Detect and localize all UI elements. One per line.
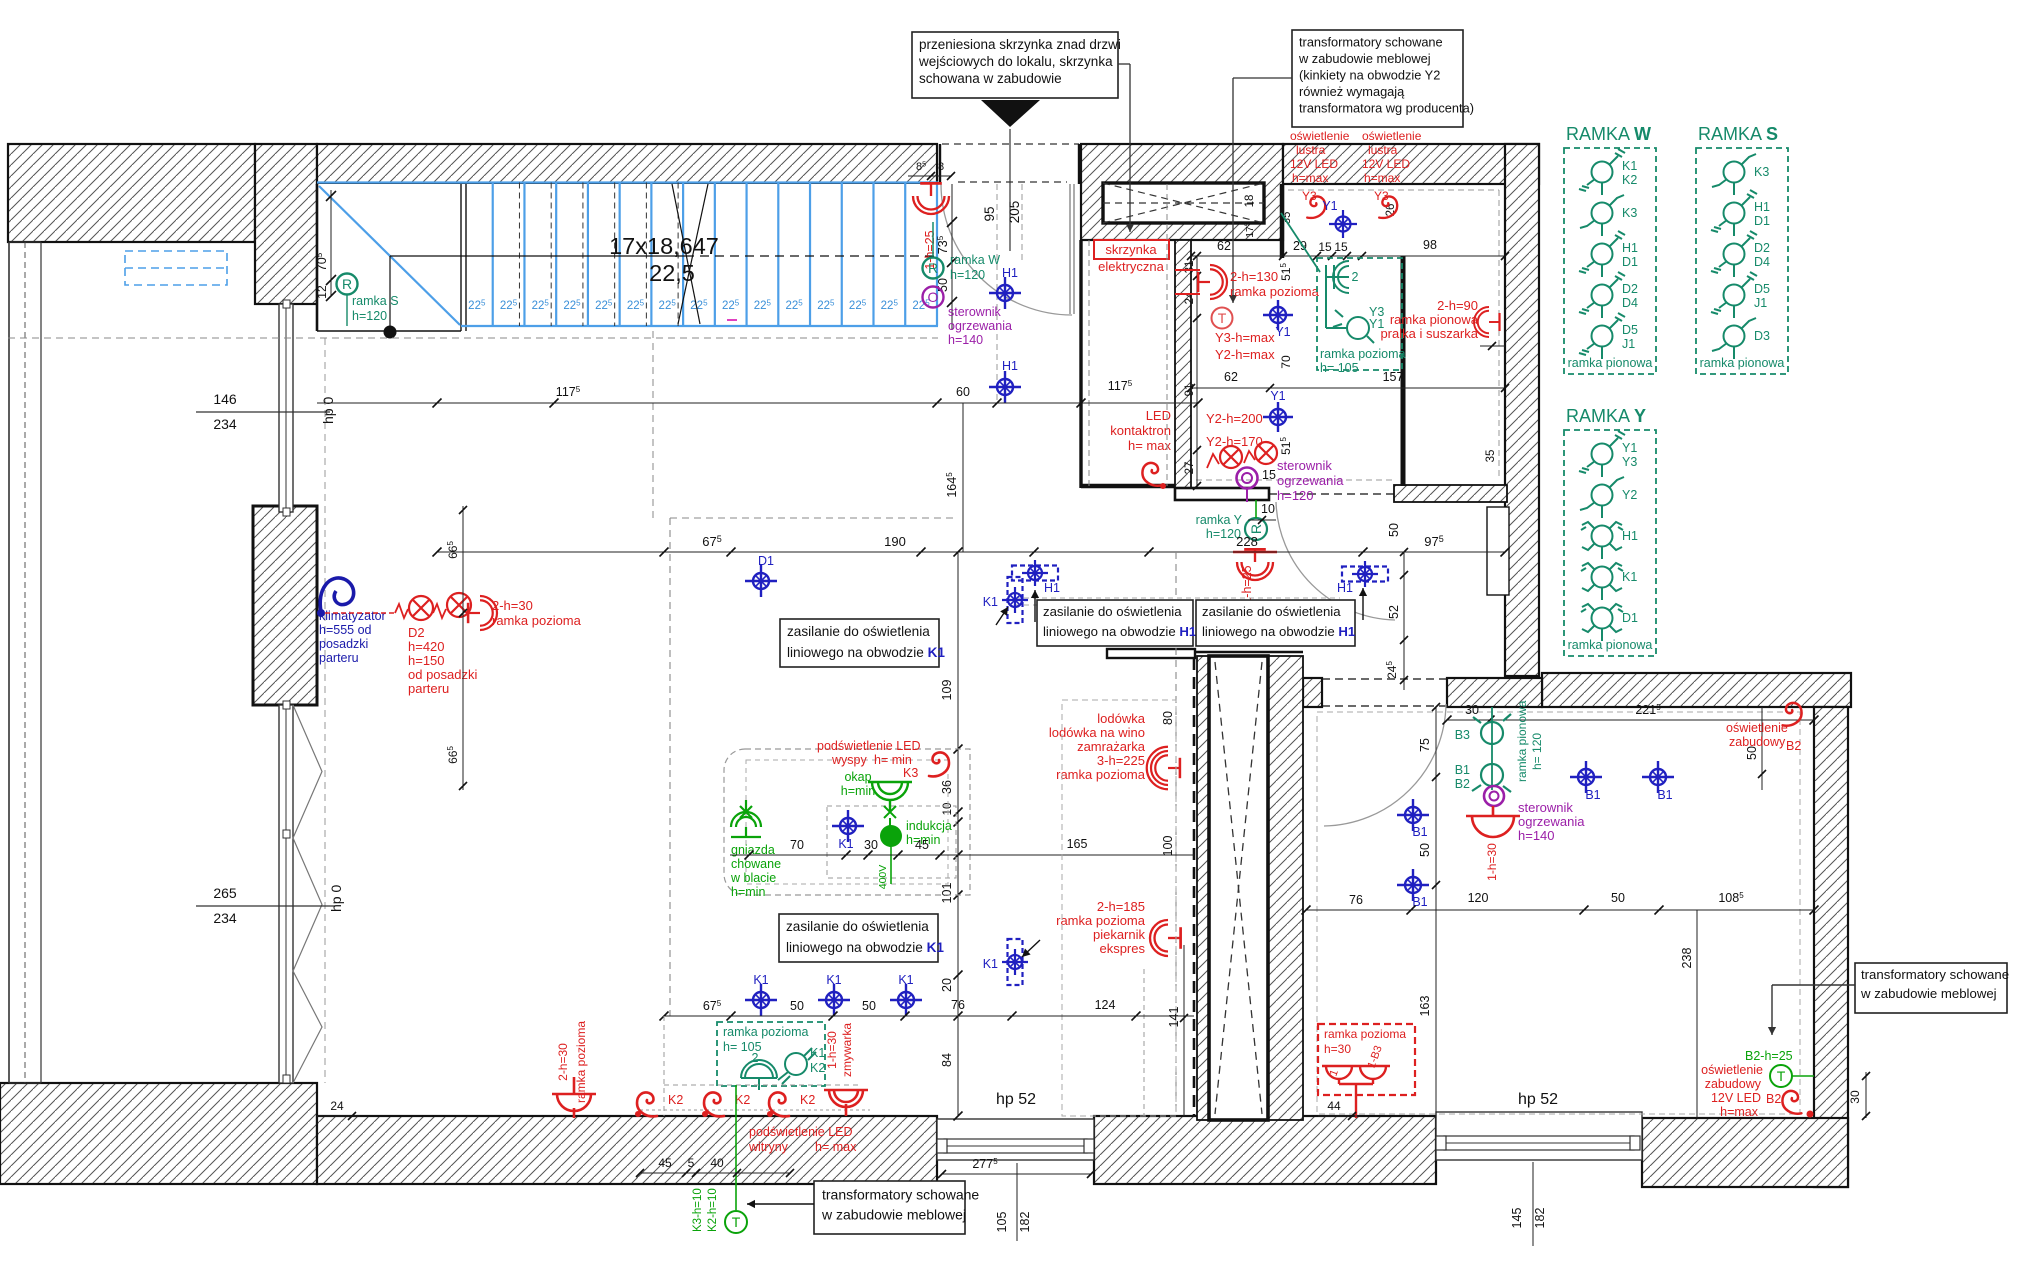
svg-text:70: 70 [1279,355,1293,369]
dashed line under stairs [8,337,938,339]
svg-text:182: 182 [1533,1208,1547,1229]
svg-text:K3: K3 [1622,206,1637,220]
svg-text:ekspres: ekspres [1099,941,1145,956]
svg-text:Y2-h=200: Y2-h=200 [1206,411,1263,426]
svg-text:sterownik: sterownik [1277,458,1332,473]
left facade thin lines [8,242,10,1083]
svg-text:ramka S: ramka S [352,294,399,308]
stairs: blue outline [317,181,938,183]
svg-text:chowane: chowane [731,857,781,871]
gniazda chowane [731,800,761,837]
bathroom dims row y=388 [1191,387,1505,389]
blue dashed box top-left [125,251,227,285]
corridor walls [1079,240,1082,488]
svg-text:h=max: h=max [1292,171,1328,185]
svg-text:D4: D4 [1754,255,1770,269]
wall: right room right wall [1814,707,1848,1187]
svg-text:wejściowych do lokalu, skrzynk: wejściowych do lokalu, skrzynka [918,54,1113,69]
svg-text:B1: B1 [1412,825,1427,839]
svg-text:84: 84 [940,1053,954,1067]
svg-text:hp 0: hp 0 [328,885,344,912]
svg-text:h=max: h=max [1364,171,1400,185]
svg-text:15: 15 [1334,240,1348,254]
svg-text:2-h=130: 2-h=130 [1230,269,1278,284]
stairs body [317,184,938,328]
svg-text:2-h=90: 2-h=90 [1437,298,1478,313]
right room inset dashed [1317,712,1800,1114]
B1 ceiling lights [1397,799,1429,831]
svg-text:146: 146 [213,391,237,407]
svg-text:Y3-h=max: Y3-h=max [1215,330,1275,345]
zasilanie K1 box (bottom) [779,914,938,962]
svg-text:h=120: h=120 [352,309,387,323]
stairs: walk line [390,255,685,257]
island dashed outline [724,749,970,895]
entrance arrow triangle [981,100,1040,127]
svg-text:101: 101 [940,883,954,904]
svg-text:h=min: h=min [841,784,875,798]
svg-text:(kinkiety na obwodzie Y2: (kinkiety na obwodzie Y2 [1299,68,1440,83]
svg-text:B1: B1 [1455,763,1470,777]
wall: bathroom top band with niche [1081,144,1283,240]
zasilanie K1 box (top) [780,619,939,667]
svg-text:ramka pozioma: ramka pozioma [1324,1027,1406,1041]
stairs: landing diagonal [319,186,460,325]
svg-text:70: 70 [790,838,804,852]
svg-text:podświetlenie LED: podświetlenie LED [749,1125,853,1139]
svg-text:44: 44 [1327,1099,1341,1113]
svg-text:ramka pozioma: ramka pozioma [1230,284,1320,299]
svg-text:2: 2 [752,1051,759,1065]
svg-text:Y2-h=max: Y2-h=max [1215,347,1275,362]
svg-text:R: R [342,276,352,292]
vertical dim x=958 main chain [957,552,959,1116]
K1 island [832,810,864,842]
svg-text:zamrażarka: zamrażarka [1077,739,1146,754]
svg-text:posadzki: posadzki [319,637,368,651]
svg-text:Y1: Y1 [1322,199,1337,213]
svg-text:zmywarka: zmywarka [840,1023,854,1077]
svg-text:K3: K3 [903,766,918,780]
kitchen dim row y=855 [730,854,1194,856]
svg-text:transformatory schowane: transformatory schowane [822,1187,979,1203]
heating controller purple [1237,468,1258,489]
H1 linear hall [1342,567,1388,582]
svg-text:K2: K2 [668,1093,683,1107]
T thermostat [1212,308,1233,329]
svg-text:100: 100 [1161,836,1175,857]
svg-text:h= 105: h= 105 [1320,361,1359,375]
svg-text:D5: D5 [1754,282,1770,296]
svg-text:50: 50 [1387,523,1401,537]
niche in right wall [1487,507,1509,595]
svg-text:D3: D3 [1754,329,1770,343]
svg-text:T: T [732,1214,741,1230]
svg-text:w blacie: w blacie [730,871,776,885]
green dashed box ramka pozioma h=105 kitchen [717,1022,825,1086]
svg-text:sterownik: sterownik [1518,800,1573,815]
svg-text:B3: B3 [1455,728,1470,742]
svg-text:w zabudowie meblowej: w zabudowie meblowej [821,1207,966,1223]
svg-text:234: 234 [213,416,237,432]
svg-text:ogrzewania: ogrzewania [1518,814,1585,829]
svg-text:31: 31 [1184,261,1196,274]
window 1 (146/234) [279,304,293,512]
stairs: break lines [672,184,700,324]
svg-text:2-h=30: 2-h=30 [556,1043,570,1081]
svg-text:75: 75 [1418,738,1432,752]
svg-text:transformatora wg producenta): transformatora wg producenta) [1299,101,1474,116]
socket 2-h=130 [1198,265,1227,299]
svg-text:ramka pionowa: ramka pionowa [1390,312,1479,327]
svg-text:pralka i suszarka: pralka i suszarka [1380,326,1478,341]
svg-text:ramka pionowa: ramka pionowa [1700,356,1785,370]
svg-text:B2: B2 [1786,739,1801,753]
D2 chain red [325,612,395,614]
svg-text:oświetlenie: oświetlenie [1726,721,1788,735]
svg-text:12V LED: 12V LED [1362,157,1410,171]
door leaf + swing [1069,184,1071,314]
svg-text:zasilanie do oświetlenia: zasilanie do oświetlenia [787,624,930,639]
svg-text:3-h=225: 3-h=225 [1097,753,1145,768]
svg-text:K1: K1 [1622,159,1637,173]
svg-text:K1: K1 [1622,570,1637,584]
svg-text:h=420: h=420 [408,639,445,654]
svg-text:2: 2 [1352,270,1359,284]
svg-text:27: 27 [1184,462,1196,475]
svg-text:K2: K2 [735,1093,750,1107]
svg-text:h=150: h=150 [408,653,445,668]
svg-text:zasilanie do oświetlenia: zasilanie do oświetlenia [1202,604,1341,619]
svg-text:50: 50 [1611,891,1625,905]
svg-text:105: 105 [995,1212,1009,1233]
svg-text:17x18,647: 17x18,647 [609,233,719,259]
svg-text:62: 62 [1224,370,1238,384]
counter dashed [664,1084,862,1086]
svg-text:234: 234 [213,910,237,926]
red dashed box ramka pozioma h=30 [1318,1024,1415,1095]
svg-text:50: 50 [790,999,804,1013]
svg-text:również wymagają: również wymagają [1299,84,1405,99]
svg-text:D5: D5 [1622,323,1638,337]
svg-text:h=max: h=max [1720,1105,1759,1119]
svg-text:h=120: h=120 [1277,488,1314,503]
svg-text:50: 50 [1418,843,1432,857]
svg-text:zabudowy: zabudowy [1729,735,1786,749]
skrzynka elektryczna label [1094,240,1169,259]
dim row right room top [1447,719,1814,721]
svg-text:120: 120 [1468,891,1489,905]
svg-text:h= max: h= max [1128,438,1171,453]
svg-text:ogrzewania: ogrzewania [1277,473,1344,488]
svg-text:ramka pozioma: ramka pozioma [1056,767,1146,782]
svg-text:h= max: h= max [815,1140,857,1154]
K1/H1 linear cluster top [1008,577,1023,623]
bathroom rotated dims left chain [1196,256,1198,486]
transformatory box bottom [814,1181,965,1234]
red lamp witryna [824,1090,868,1116]
svg-text:B2: B2 [1766,1092,1781,1106]
hall dashed circuit [1015,597,1340,599]
svg-text:parteru: parteru [319,651,359,665]
svg-text:ramka pozioma: ramka pozioma [492,613,582,628]
svg-text:400V: 400V [877,865,889,890]
svg-text:elektryczna: elektryczna [1098,259,1165,274]
svg-text:RAMKA S: RAMKA S [1698,124,1778,144]
svg-text:lodówka na wino: lodówka na wino [1049,725,1145,740]
svg-text:Y2: Y2 [1622,488,1637,502]
svg-text:B2: B2 [1455,777,1470,791]
svg-text:45: 45 [915,838,929,852]
green wall lamps B3/B1/B2 [1491,707,1493,790]
svg-text:K2: K2 [1622,173,1637,187]
svg-text:skrzynka: skrzynka [1105,242,1157,257]
svg-text:podświetlenie LED: podświetlenie LED [817,739,921,753]
svg-text:35: 35 [1485,450,1497,463]
svg-text:ramka Y: ramka Y [1196,513,1243,527]
right room door swing [1324,704,1446,826]
red socket 1-h=25 top [913,183,949,214]
svg-text:K1: K1 [810,1046,825,1060]
svg-text:przeniesiona skrzynka znad drz: przeniesiona skrzynka znad drzwi [919,37,1121,52]
svg-text:D1: D1 [1754,214,1770,228]
svg-text:ramka pozioma: ramka pozioma [574,1021,588,1103]
svg-text:ramka pozioma: ramka pozioma [723,1025,808,1039]
svg-text:J1: J1 [1754,296,1767,310]
svg-text:228: 228 [1236,534,1258,549]
zasilanie H1 boxes [1037,600,1193,646]
svg-text:od posadzki: od posadzki [408,667,477,682]
svg-text:oświetlenie: oświetlenie [1362,129,1422,143]
svg-text:18: 18 [1244,195,1256,208]
svg-text:265: 265 [213,885,237,901]
svg-text:T: T [1218,310,1227,326]
entrance door opening [942,143,1079,145]
svg-text:hp 52: hp 52 [996,1091,1036,1108]
svg-text:hp 52: hp 52 [1518,1091,1558,1108]
kitchen top-right wall piece [1107,649,1195,658]
svg-text:165: 165 [1067,837,1088,851]
svg-text:8: 8 [938,161,944,173]
bathroom bottom wall [1175,488,1269,500]
svg-text:95: 95 [982,206,997,221]
svg-text:30: 30 [1848,1090,1862,1104]
svg-text:K3: K3 [1754,165,1769,179]
svg-text:K2: K2 [800,1093,815,1107]
svg-text:transformatory schowane: transformatory schowane [1299,35,1443,50]
svg-text:h=140: h=140 [948,333,983,347]
svg-text:RAMKA W: RAMKA W [1566,124,1651,144]
wall: right room top band [1542,673,1851,707]
svg-text:B2-h=25: B2-h=25 [1745,1049,1793,1063]
green shower box ramka pozioma h=105 [1317,258,1402,370]
svg-text:zasilanie do oświetlenia: zasilanie do oświetlenia [1043,604,1182,619]
svg-text:H1: H1 [1044,581,1060,595]
bathroom dims row y=256 [1191,255,1505,257]
svg-text:12: 12 [315,285,329,299]
svg-text:45: 45 [658,1156,672,1170]
transformatory box right [1855,963,2007,1013]
svg-text:80: 80 [1161,711,1175,725]
svg-text:zasilanie do oświetlenia: zasilanie do oświetlenia [786,919,929,934]
bottom-left red socket [552,1077,596,1118]
svg-text:60: 60 [956,385,970,399]
bottom window 1 hp52 [937,1119,1094,1160]
svg-text:H1: H1 [1002,359,1018,373]
green T stem bottom [735,1085,737,1210]
svg-text:76: 76 [951,998,965,1012]
stairs: treads [492,183,494,327]
red socket 1-h=25 hall [1237,549,1273,580]
svg-text:190: 190 [884,534,906,549]
svg-text:ramka pozioma: ramka pozioma [1056,913,1146,928]
svg-text:liniowego na obwodzie H1: liniowego na obwodzie H1 [1202,624,1355,639]
wall: bathroom left partition (hatched strip) [1175,240,1191,488]
svg-text:52: 52 [1387,605,1401,619]
svg-text:parteru: parteru [408,681,449,696]
dim 30 right edge [1865,1072,1867,1118]
svg-text:Y3: Y3 [1622,455,1637,469]
svg-text:98: 98 [1423,238,1437,252]
svg-text:kontaktron: kontaktron [1110,423,1171,438]
svg-text:157: 157 [1383,370,1404,384]
K2 curls bottom [637,1092,657,1116]
svg-text:15: 15 [1262,468,1276,482]
svg-text:h=140: h=140 [1518,828,1555,843]
svg-text:109: 109 [940,680,954,701]
svg-text:40: 40 [710,1156,724,1170]
svg-text:zabudowy: zabudowy [1705,1077,1762,1091]
svg-text:hp 0: hp 0 [320,397,336,424]
svg-text:30: 30 [1465,703,1479,717]
svg-text:50: 50 [862,999,876,1013]
svg-text:12V LED: 12V LED [1711,1091,1761,1105]
svg-text:2-h=185: 2-h=185 [1097,899,1145,914]
svg-text:klimatyzator: klimatyzator [319,609,386,623]
wall: shaft walls [1197,656,1209,1120]
svg-text:oświetlenie: oświetlenie [1701,1063,1763,1077]
svg-text:141: 141 [1167,1007,1181,1028]
svg-text:wyspy: wyspy [831,753,867,767]
svg-text:ramka pozioma: ramka pozioma [1320,347,1405,361]
svg-text:K2-h=10: K2-h=10 [707,1188,719,1232]
svg-text:sterownik: sterownik [948,305,1002,319]
klimatyzator [320,578,353,612]
svg-text:lustra: lustra [1368,143,1398,157]
svg-text:36: 36 [940,780,954,794]
svg-text:ramka W: ramka W [950,253,1000,267]
svg-text:okap: okap [844,770,871,784]
svg-text:D1: D1 [1622,255,1638,269]
bottom window 2 hp52 [1436,1112,1642,1160]
note box: transformatory (kinkiety) [1292,30,1463,127]
svg-text:H1: H1 [1622,241,1638,255]
svg-text:238: 238 [1680,948,1694,969]
svg-text:h=min: h=min [731,885,765,899]
svg-text:schowana w zabudowie: schowana w zabudowie [919,71,1062,86]
svg-text:B1: B1 [1657,788,1672,802]
stairs: dim 70.5 / 12 [330,190,332,296]
dim row y=1016 [664,1015,1194,1017]
svg-text:H1: H1 [1622,529,1638,543]
svg-text:91: 91 [1184,384,1196,397]
dim row y=403 [317,402,1198,404]
wall: bottom band [0,1083,317,1184]
svg-text:12V LED: 12V LED [1290,157,1338,171]
svg-text:D1: D1 [1622,611,1638,625]
svg-text:H1: H1 [1754,200,1770,214]
red fixture 1-h=30 [1466,806,1520,837]
svg-text:T: T [1777,1068,1786,1084]
svg-text:5: 5 [688,1156,695,1170]
svg-text:h=30: h=30 [1324,1042,1351,1056]
svg-text:h=555 od: h=555 od [319,623,372,637]
shaft with X [1209,656,1268,1120]
ramka S label [337,274,358,295]
svg-text:H1: H1 [1337,581,1353,595]
svg-text:D4: D4 [1622,296,1638,310]
svg-text:liniowego na obwodzie K1: liniowego na obwodzie K1 [786,940,944,955]
svg-text:205: 205 [1007,201,1022,224]
svg-text:145: 145 [1510,1208,1524,1229]
svg-text:h= 120: h= 120 [1530,733,1544,770]
K1 linear bottom [1008,939,1023,985]
svg-text:2-h=30: 2-h=30 [492,598,533,613]
svg-text:liniowego na obwodzie H1: liniowego na obwodzie H1 [1043,624,1196,639]
right room dim row y=910 [1306,909,1814,911]
corridor dashed [1088,240,1090,486]
living dashed ceiling lines [669,518,671,1016]
svg-text:ogrzewania: ogrzewania [948,319,1012,333]
wall: top-left block [8,144,255,242]
wall: top band over stairs [317,144,937,184]
svg-text:w zabudowie meblowej: w zabudowie meblowej [1860,986,1997,1001]
svg-text:D2: D2 [1754,241,1770,255]
svg-text:62: 62 [1217,239,1231,253]
ramka W labels [932,222,934,256]
svg-text:B1: B1 [1585,788,1600,802]
svg-text:R: R [928,260,938,276]
hall door arc (bathroom) [1276,502,1395,620]
svg-text:transformatory schowane: transformatory schowane [1861,967,2009,982]
svg-text:oświetlenie: oświetlenie [1290,129,1350,143]
bathroom partition stub [1280,184,1285,258]
svg-text:124: 124 [1095,998,1116,1012]
svg-text:22,5: 22,5 [649,260,695,286]
svg-text:20: 20 [940,978,954,992]
svg-text:RAMKA Y: RAMKA Y [1566,406,1646,426]
svg-text:1-h=30: 1-h=30 [1485,843,1499,881]
svg-text:10: 10 [1261,502,1275,516]
svg-text:182: 182 [1018,1212,1032,1233]
svg-text:30: 30 [864,838,878,852]
main dim row y=552 [437,551,1505,553]
svg-text:163: 163 [1418,996,1432,1017]
wall: bathroom right wall [1505,144,1539,676]
note box: przeniesiona skrzynka [912,32,1118,98]
svg-text:Y1: Y1 [1270,389,1285,403]
svg-text:piekarnik: piekarnik [1093,927,1146,942]
kitchen cabinets dashed [1062,700,1176,1116]
dims 45 5 40 [640,1172,790,1174]
dim 66.5/66.5 [462,506,464,790]
wall: left pillar [253,506,317,705]
svg-text:liniowego na obwodzie K1: liniowego na obwodzie K1 [787,645,945,660]
svg-text:76: 76 [1349,893,1363,907]
svg-text:O: O [928,289,939,305]
vertical dim chain x=1404 [1403,552,1405,690]
svg-text:w zabudowie meblowej: w zabudowie meblowej [1298,51,1431,66]
